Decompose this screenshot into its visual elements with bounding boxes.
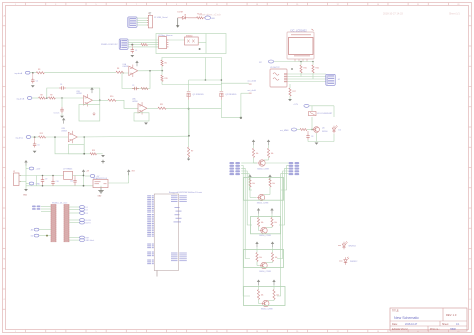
connector X2 rs485 blue pins — [119, 39, 128, 49]
svg-text:10k: 10k — [261, 222, 264, 224]
led D2 — [332, 128, 335, 131]
resistor R2 — [141, 44, 147, 46]
net flag LED1 — [205, 16, 211, 20]
connector J4 blue pins — [326, 74, 335, 85]
frame row ticks left/right — [3, 25, 6, 27]
ic U3 MAX3485 — [159, 37, 167, 49]
resistor R16 pullup — [312, 65, 314, 73]
wire — [100, 186, 102, 188]
title block cell dividers — [442, 308, 444, 321]
mosfet Q2 — [220, 91, 224, 93]
wire rs485 a — [128, 39, 158, 41]
svg-text:3: 3 — [55, 4, 56, 6]
net flag D3 — [69, 212, 80, 214]
wire — [240, 93, 242, 117]
wire — [220, 83, 222, 84]
svg-text:LM358: LM358 — [76, 93, 82, 95]
svg-text:19: 19 — [377, 331, 379, 333]
svg-text:out_drvB: out_drvB — [248, 89, 257, 92]
display module U6 outline — [287, 32, 314, 59]
wire — [316, 133, 318, 142]
svg-text:RS485-COM 3.3V: RS485-COM 3.3V — [101, 44, 118, 46]
mcu right inner labels top — [171, 195, 178, 196]
wire — [198, 41, 206, 43]
svg-text:Q2 IRF4905: Q2 IRF4905 — [225, 94, 237, 96]
ground arrow — [187, 157, 190, 160]
pin header bar right — [64, 205, 69, 206]
ground — [315, 143, 319, 145]
resistor Q11 b — [273, 290, 275, 300]
wire — [85, 175, 90, 177]
svg-text:I2C_LCD1602: I2C_LCD1602 — [291, 29, 308, 33]
svg-text:17: 17 — [337, 331, 339, 333]
svg-text:R16: R16 — [316, 68, 319, 70]
resistor R5 — [141, 87, 148, 89]
svg-text:10k: 10k — [261, 295, 264, 297]
wire Q7 — [253, 145, 255, 148]
svg-text:GND: GND — [23, 195, 28, 197]
wire — [161, 71, 163, 76]
vcc arrow Q11 a — [257, 280, 260, 283]
junction — [42, 175, 44, 177]
junction — [240, 117, 242, 119]
svg-text:23: 23 — [457, 331, 459, 333]
wire — [168, 39, 185, 41]
wire — [300, 62, 302, 66]
mcu left pin labels — [147, 195, 151, 196]
transistor Q10 S8050 — [261, 262, 267, 268]
wire — [116, 100, 138, 108]
junction — [83, 175, 85, 177]
wire — [297, 129, 300, 131]
net flag RST — [69, 237, 80, 239]
capacitor C10 — [52, 176, 54, 180]
wire — [220, 100, 222, 118]
wire — [221, 117, 241, 119]
resistor R13 — [90, 153, 97, 155]
dark cross mark — [102, 160, 104, 164]
wire — [220, 58, 222, 92]
svg-text:21: 21 — [417, 4, 419, 6]
wire Q8 — [249, 179, 251, 181]
svg-text:10k: 10k — [256, 153, 259, 155]
transistor Q8 S8050 — [258, 194, 264, 200]
wire Q9 — [258, 214, 260, 218]
svg-text:Sheet 1/1: Sheet 1/1 — [449, 13, 460, 16]
svg-text:WS2812: WS2812 — [350, 261, 357, 263]
wire — [36, 176, 38, 186]
vcc arrow Q8 b — [268, 175, 271, 178]
ground — [101, 155, 105, 157]
svg-text:REV: 1.0: REV: 1.0 — [446, 313, 457, 317]
svg-text:U7 78M05: U7 78M05 — [63, 168, 73, 170]
net flag D2 — [69, 209, 80, 211]
svg-text:Sheet:: Sheet: — [442, 323, 449, 326]
wire rs485 d — [128, 46, 158, 48]
svg-text:C2: C2 — [36, 81, 38, 83]
svg-text:9: 9 — [176, 331, 177, 333]
wire — [41, 208, 51, 210]
wire — [289, 96, 291, 99]
resistor Q9 a — [257, 218, 259, 227]
wire Q9 — [258, 227, 260, 231]
vcc arrow +5V — [82, 169, 85, 172]
mcu right inner labels bottom — [171, 253, 178, 254]
junction — [188, 135, 190, 137]
transistor Q7 S8050 — [259, 160, 265, 166]
svg-text:S8050_C2988: S8050_C2988 — [259, 235, 271, 237]
wire — [128, 173, 130, 183]
transistor Q11 S8050 — [263, 300, 269, 306]
vcc arrow U2B — [62, 118, 65, 121]
inductor L1 — [309, 112, 317, 116]
wire — [41, 210, 51, 212]
svg-text:R15: R15 — [304, 68, 307, 70]
svg-text:10k: 10k — [271, 153, 274, 155]
wire loop Q9 — [251, 217, 281, 234]
wire Q7 — [253, 158, 255, 164]
resistor R10 — [108, 99, 116, 101]
svg-text:5: 5 — [96, 4, 97, 6]
resistor Q11 a — [257, 290, 259, 300]
wire Q8 — [249, 187, 251, 198]
wire — [55, 97, 83, 99]
ground — [130, 55, 134, 57]
wire — [61, 98, 63, 107]
svg-text:R19: R19 — [165, 78, 168, 80]
svg-text:C6: C6 — [37, 145, 39, 147]
svg-text:5: 5 — [96, 331, 97, 333]
wire Q10 — [256, 247, 258, 252]
mcu middle labels — [175, 207, 180, 208]
svg-text:R4: R4 — [117, 68, 119, 70]
transistor Q9 S8050 — [261, 227, 267, 233]
svg-text:D3: D3 — [86, 213, 88, 215]
wire loop Q11 — [244, 287, 286, 306]
title block outline — [390, 308, 467, 331]
wire channel C out — [77, 135, 189, 138]
svg-text:10k: 10k — [272, 183, 275, 185]
wire i2c bus 3 — [288, 78, 327, 80]
wire — [41, 205, 51, 207]
wire nested left 1 — [241, 166, 250, 296]
wire — [188, 17, 197, 19]
junction — [300, 61, 302, 63]
wire — [147, 107, 158, 109]
display header text — [291, 34, 311, 35]
svg-text:U3 Reg_Hanrun: U3 Reg_Hanrun — [158, 35, 172, 37]
vcc arrow Q7 a — [252, 140, 255, 143]
svg-text:Q1 IRF4905: Q1 IRF4905 — [193, 94, 205, 96]
svg-text:9: 9 — [176, 4, 177, 6]
svg-text:11: 11 — [216, 4, 218, 6]
resistor R11 — [158, 107, 166, 109]
wire Q10 — [256, 262, 258, 266]
wire gnd rail — [26, 185, 93, 187]
capacitor C2 — [32, 73, 34, 78]
ground — [60, 116, 64, 118]
resistor Q10 a — [256, 253, 258, 262]
wire rail lower — [162, 57, 222, 59]
svg-text:7: 7 — [136, 331, 137, 333]
wire — [188, 100, 190, 147]
wire — [161, 58, 163, 60]
svg-text:19: 19 — [377, 4, 379, 6]
svg-text:inp-drvC: inp-drvC — [16, 136, 24, 139]
wire — [311, 117, 313, 130]
svg-text:10k: 10k — [274, 222, 277, 224]
svg-text:S8050_C2988: S8050_C2988 — [257, 203, 269, 205]
connector blue pins left — [32, 206, 36, 208]
svg-text:1: 1 — [15, 4, 16, 6]
wire — [241, 162, 257, 164]
wire Q7 — [268, 158, 270, 161]
v- arrow — [93, 112, 96, 115]
junction — [32, 72, 34, 74]
wire Q8 — [269, 187, 271, 195]
svg-text:S8050_C2988: S8050_C2988 — [259, 271, 271, 273]
svg-text:New Schematic: New Schematic — [394, 316, 419, 320]
display footer text — [294, 55, 310, 56]
wire — [265, 162, 289, 164]
wire — [188, 80, 190, 91]
wire — [26, 183, 29, 185]
svg-text:C4: C4 — [60, 84, 62, 86]
wire — [221, 82, 249, 84]
capacitor C6 — [34, 137, 36, 142]
resistor Q8 b — [269, 179, 271, 188]
capacitor C4 — [59, 87, 62, 89]
resistor R8 — [39, 97, 46, 99]
net flag GND power — [29, 182, 34, 185]
svg-text:11: 11 — [216, 331, 218, 333]
svg-text:SS8050: SS8050 — [186, 35, 192, 37]
junction — [52, 175, 54, 177]
display pins — [294, 59, 296, 62]
wire — [108, 182, 129, 184]
svg-text:+12V: +12V — [36, 169, 41, 171]
svg-text:Q6: Q6 — [322, 127, 325, 129]
wire — [148, 44, 159, 46]
wire — [312, 62, 314, 66]
wire gate rail — [189, 79, 222, 81]
frame column ticks top/bottom — [25, 3, 27, 6]
svg-text:J1: J1 — [148, 13, 150, 15]
wire usb pin 1 — [137, 17, 149, 19]
wire mcu stub — [156, 271, 158, 277]
ground V- arrow at D1 — [177, 18, 179, 26]
sensor U5 DHT22 — [270, 69, 287, 87]
wire — [307, 140, 309, 142]
wire — [61, 113, 63, 115]
svg-text:2018-10-27: 2018-10-27 — [405, 323, 418, 326]
wire — [203, 17, 205, 19]
net flag D5 — [69, 219, 80, 221]
svg-text:inp-drvA: inp-drvA — [15, 72, 23, 75]
svg-text:out_MME: out_MME — [280, 129, 289, 132]
op-amp U1A — [129, 66, 138, 75]
junction — [99, 99, 101, 101]
junction — [221, 79, 223, 81]
wire feedback U2A box — [134, 113, 149, 121]
wire led row — [178, 17, 183, 19]
wire — [205, 34, 207, 54]
diode D1 — [183, 16, 186, 19]
svg-text:C3: C3 — [132, 85, 134, 87]
svg-text:3: 3 — [55, 331, 56, 333]
svg-text:LM358: LM358 — [132, 101, 138, 103]
svg-text:GND: GND — [36, 184, 41, 186]
ground — [24, 189, 28, 191]
svg-text:17: 17 — [337, 4, 339, 6]
wire drain rail — [189, 108, 222, 110]
wire — [20, 175, 64, 177]
resistor R4 — [116, 71, 124, 73]
connector SV1 usb-serial blue pins — [128, 17, 137, 27]
transistor Q6 S8550 — [314, 127, 320, 133]
wire nested right 1 — [281, 166, 289, 190]
svg-text:D4: D4 — [31, 236, 33, 238]
capacitor C3 — [132, 88, 135, 90]
capacitor C8 — [307, 131, 309, 134]
wire Q9 — [271, 227, 273, 228]
svg-text:U8 AMS1117-3.3: U8 AMS1117-3.3 — [93, 177, 107, 180]
svg-text:LM358: LM358 — [61, 130, 67, 132]
connector J2 power — [14, 173, 20, 186]
svg-text:10k: 10k — [259, 257, 262, 259]
svg-text:R11: R11 — [160, 104, 163, 106]
wire nested left 4 — [241, 174, 252, 190]
svg-text:TITLE:: TITLE: — [392, 310, 400, 313]
svg-text:R6: R6 — [165, 63, 167, 65]
wire loop box around U4 — [156, 34, 226, 54]
resistor Q9 b — [271, 218, 273, 227]
svg-text:C8: C8 — [311, 136, 313, 138]
svg-text:LM358: LM358 — [123, 66, 129, 68]
wire — [73, 175, 84, 177]
net flag +5V — [90, 175, 95, 178]
wire — [97, 153, 103, 155]
title block row dividers — [390, 320, 467, 322]
svg-text:R17: R17 — [293, 91, 296, 93]
svg-text:D2: D2 — [339, 130, 341, 132]
junction — [291, 68, 293, 70]
svg-text:2018-10-27 14:33: 2018-10-27 14:33 — [383, 13, 403, 16]
capacitor C9 — [42, 176, 44, 178]
svg-text:1: 1 — [15, 331, 16, 333]
resistor R15 pullup — [300, 65, 302, 73]
resistor R19 — [161, 75, 163, 81]
wire nested right 4 — [277, 174, 289, 296]
wire — [93, 99, 109, 101]
wire — [204, 58, 206, 81]
regulator U7 78M05 — [64, 171, 73, 179]
svg-text:R9: R9 — [50, 94, 52, 96]
junction — [46, 235, 48, 237]
svg-text:C11: C11 — [70, 181, 73, 183]
vcc arrow Q10 a — [255, 242, 258, 245]
wire — [333, 106, 335, 117]
vcc arrow Q7 b — [267, 140, 270, 143]
svg-text:10k: 10k — [252, 183, 255, 185]
wire Q11 — [258, 300, 260, 304]
wire — [241, 92, 249, 94]
svg-text:7: 7 — [136, 4, 137, 6]
resistor Q8 a — [249, 179, 251, 188]
svg-text:S8050_C2988: S8050_C2988 — [257, 168, 269, 170]
wire — [162, 84, 221, 86]
svg-text:C10: C10 — [56, 181, 59, 183]
wire i2c rail — [274, 61, 313, 63]
svg-text:R8: R8 — [40, 94, 42, 96]
svg-text:LED: LED — [211, 18, 215, 20]
wire loop C box — [68, 145, 84, 154]
junction — [199, 48, 201, 50]
svg-text:3V3: 3V3 — [132, 171, 135, 173]
net flag GND hack — [69, 239, 80, 241]
pin header J1 — [148, 15, 152, 28]
svg-text:D1 M7: D1 M7 — [178, 12, 184, 14]
svg-text:D2: D2 — [86, 210, 88, 212]
wire Q11 — [273, 300, 275, 301]
wire loop Q10 — [244, 250, 284, 268]
svg-text:13: 13 — [256, 4, 258, 6]
connector left array blue pins — [229, 162, 234, 164]
vcc arrow U1B — [90, 87, 93, 90]
svg-text:R7: R7 — [191, 151, 193, 153]
junction — [61, 97, 63, 99]
wire nested left 3 — [241, 171, 252, 225]
wire — [307, 129, 313, 131]
ground — [288, 99, 292, 101]
ground — [31, 85, 35, 87]
svg-text:EAGLE V9.2.2: EAGLE V9.2.2 — [392, 328, 408, 331]
svg-text:C9: C9 — [45, 179, 47, 181]
svg-text:23: 23 — [457, 4, 459, 6]
svg-text:inp-drvB: inp-drvB — [17, 97, 25, 100]
svg-text:15: 15 — [296, 331, 298, 333]
net flag D6 — [69, 222, 80, 224]
net flag D1 — [69, 206, 80, 208]
svg-text:H808: H808 — [450, 328, 456, 331]
mosfet Q1 — [187, 91, 191, 93]
wire nested right 3 — [277, 171, 289, 259]
wire — [26, 168, 29, 170]
wire — [309, 105, 334, 107]
led D3 — [338, 245, 341, 247]
wire — [289, 84, 291, 88]
ground — [33, 151, 37, 153]
svg-text:15: 15 — [296, 4, 298, 6]
ic U9 esp8266 outline — [154, 194, 178, 271]
wire — [30, 72, 36, 74]
svg-text:A0: A0 — [31, 229, 33, 232]
vcc arrow Q9 a — [257, 208, 260, 211]
capacitor C5 — [61, 107, 63, 109]
wire rs485 b — [128, 41, 158, 43]
svg-text:21: 21 — [417, 331, 419, 333]
pin header bar left — [51, 205, 56, 206]
resistor Q10 b — [271, 253, 273, 262]
wire Q11 — [258, 285, 260, 289]
resistor Q7 b — [267, 148, 269, 157]
wire Q10 — [272, 262, 274, 263]
capacitor C1 — [131, 45, 133, 48]
junction — [54, 136, 56, 138]
wire feedback B top — [47, 88, 100, 105]
resistor Q7 a — [252, 148, 254, 157]
svg-text:J2: J2 — [13, 171, 15, 173]
